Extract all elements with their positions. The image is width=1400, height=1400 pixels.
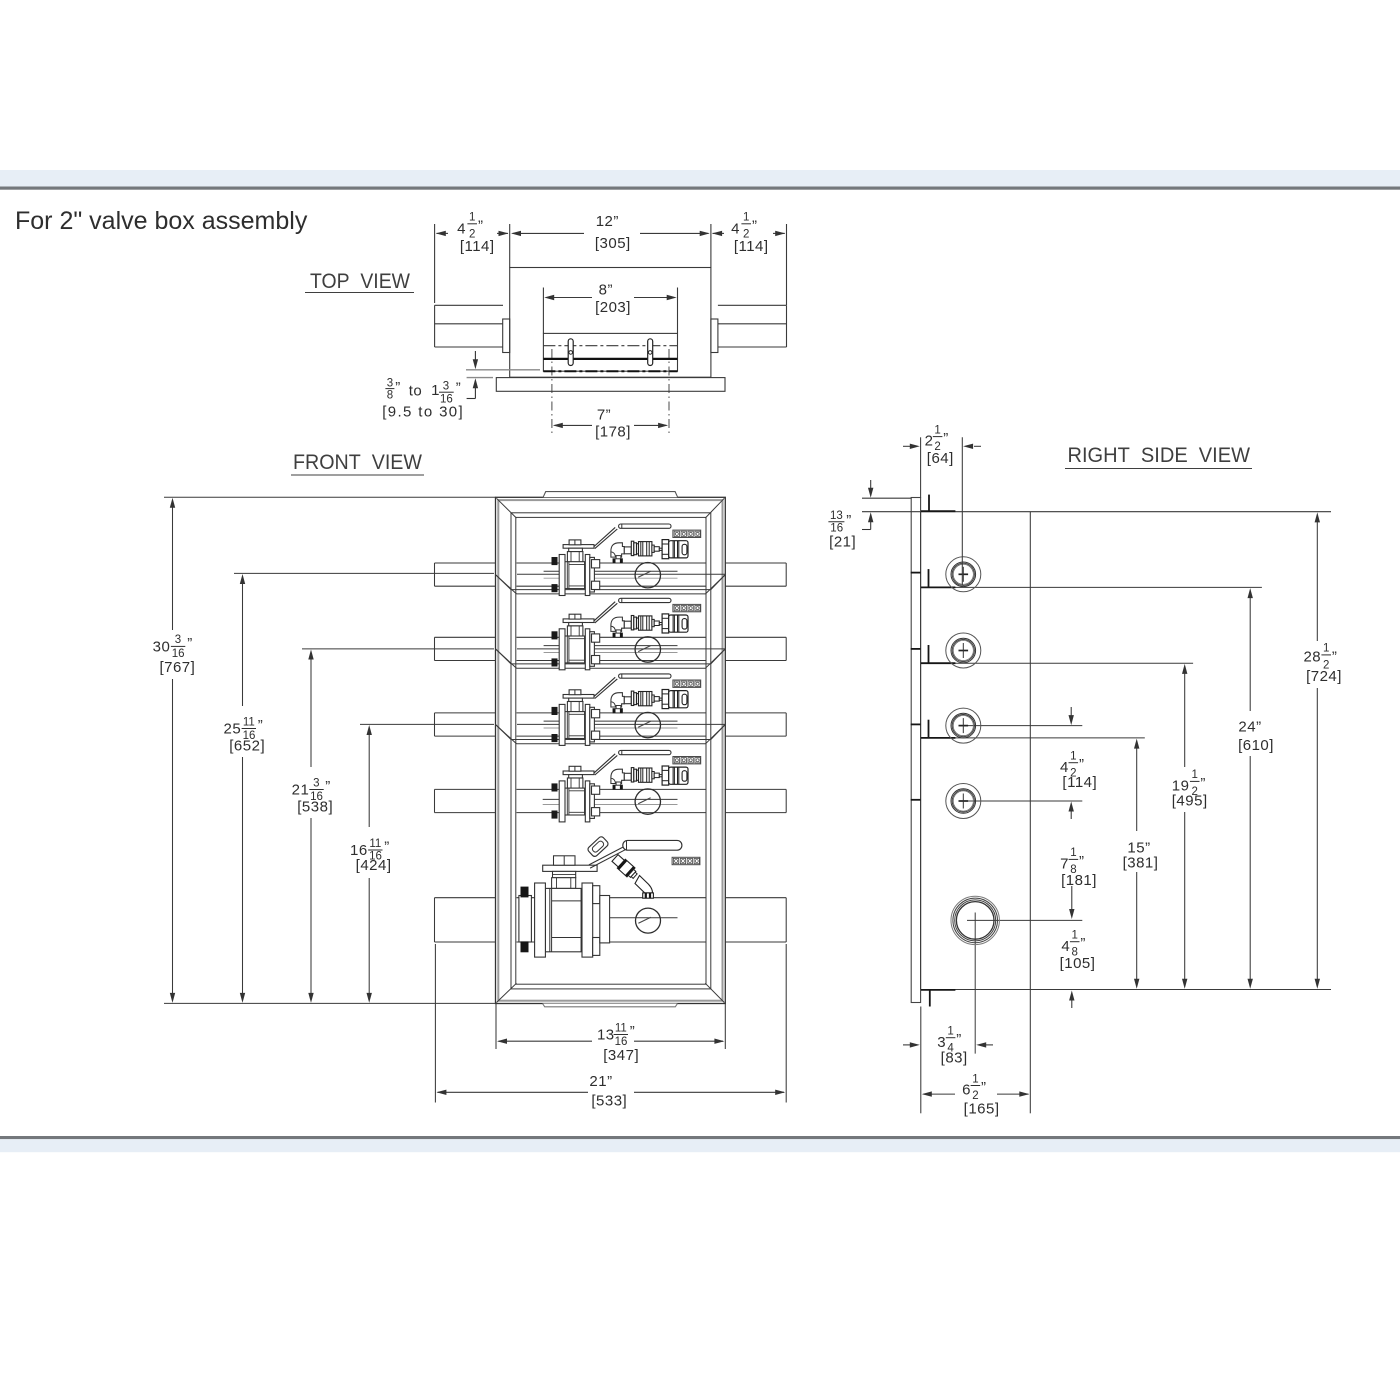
svg-text:”: ” [456, 380, 462, 397]
port 1 [946, 557, 981, 592]
svg-text:1: 1 [431, 382, 440, 399]
port 2 [946, 633, 981, 668]
ball valve assembly 3 [552, 674, 701, 746]
valve 5 manifold block [672, 857, 700, 864]
arrowheads 12 dim [511, 231, 521, 236]
port 3 [946, 708, 981, 743]
clip pipe 2 [928, 645, 930, 663]
dimension 4-1/8 arrow [1069, 991, 1074, 1001]
svg-text:2: 2 [925, 433, 934, 450]
bracket strut edge [543, 358, 677, 360]
svg-text:3: 3 [387, 378, 393, 390]
dimension line 30-3/16 [172, 506, 174, 630]
enclosure inner frame line 2 [516, 517, 706, 984]
bracket slot left [568, 339, 573, 366]
arrowheads 13-11/16 dim [497, 1039, 507, 1044]
svg-text:3: 3 [443, 381, 449, 393]
svg-text:”: ” [981, 1079, 987, 1096]
lid tab bottom [543, 1004, 678, 1007]
arrowheads 6-1/2 dim [922, 1091, 932, 1096]
extension line right of 4-1/2 dim [786, 224, 788, 305]
svg-text:1: 1 [1071, 930, 1077, 942]
extension lines 21 dim [434, 944, 436, 1103]
arrowheads 19-1/2 dim [1182, 664, 1187, 674]
dimension 13/16 arrows and leader [870, 480, 872, 489]
arrowheads 21 dim [436, 1090, 446, 1095]
svg-text:”: ” [1080, 935, 1086, 952]
mounting bracket top view [543, 333, 677, 371]
arrowheads 4-1/2 right dim [712, 231, 722, 236]
clip pipe 3 [928, 720, 930, 738]
extension line plate top [862, 497, 911, 499]
extension line box right edge [710, 224, 712, 268]
svg-text:11: 11 [243, 716, 255, 728]
svg-text:[652]: [652] [229, 738, 265, 755]
svg-text:”: ” [630, 1023, 636, 1040]
valve 5 body [545, 888, 581, 951]
lid tab top [543, 492, 678, 498]
svg-text:8: 8 [387, 390, 393, 402]
svg-text:[9.5 to 30]: [9.5 to 30] [382, 404, 463, 421]
header band [0, 170, 1400, 187]
svg-text:[347]: [347] [603, 1047, 639, 1064]
svg-text:3: 3 [937, 1034, 946, 1051]
enclosure right edge side view [1029, 512, 1031, 990]
svg-text:12”: 12” [596, 213, 619, 230]
svg-text:1: 1 [1323, 643, 1329, 655]
pipes [435, 563, 787, 942]
svg-text:”: ” [846, 512, 852, 529]
dimension line 28-1/2 [1316, 520, 1318, 641]
pipe 5 (2 inch) [435, 897, 496, 899]
valve 5 left cap and bolts [519, 896, 532, 943]
gap reference line upper [466, 369, 540, 371]
enclosure left edge side view [920, 512, 922, 990]
svg-text:1: 1 [743, 211, 749, 223]
ball valve assembly 1 [552, 524, 701, 596]
centerline port 4 [963, 800, 1082, 802]
extension line 3-1/4 left [920, 1007, 922, 1114]
extension line pipe 2 / 19-1/2 dim [921, 662, 1193, 664]
svg-text:[724]: [724] [1306, 668, 1342, 685]
bracket hidden edge dash-dot [543, 370, 677, 372]
plate tick pipe 2 [911, 648, 921, 650]
svg-text:FRONT VIEW: FRONT VIEW [293, 451, 422, 474]
plate tick pipe 1 [911, 572, 921, 574]
centerline pipe 3 [360, 723, 494, 725]
clip top [928, 495, 930, 512]
svg-text:30: 30 [153, 638, 171, 655]
centerline pipe 2 [302, 648, 494, 650]
svg-text:”: ” [956, 1031, 962, 1048]
svg-text:8”: 8” [599, 282, 613, 299]
enclosure bottom edge with extension [921, 989, 1331, 991]
svg-text:[424]: [424] [356, 857, 392, 874]
svg-text:3: 3 [175, 634, 181, 646]
enclosure inner frame line 1 [511, 513, 711, 989]
arrowheads 15 dim [1134, 739, 1139, 749]
svg-text:”: ” [187, 635, 193, 652]
gap reference line lower [467, 377, 493, 379]
arrowheads 25-11/16 dim [240, 574, 245, 584]
extension lines 8 dim [542, 288, 544, 334]
svg-text:24”: 24” [1238, 718, 1261, 735]
svg-text:4: 4 [1061, 938, 1070, 955]
centerline pipe 1 [234, 572, 494, 574]
svg-text:4: 4 [457, 220, 466, 237]
pipe 3 [435, 712, 496, 714]
dimension line 6-1/2 [924, 1093, 1029, 1095]
arrowheads 30-3/16 dim [170, 498, 175, 508]
valve 5 drain elbow [635, 876, 653, 893]
frame miter corners [497, 498, 725, 1002]
port 4 [946, 784, 981, 819]
ball valve assembly 4 [552, 750, 701, 822]
svg-text:RIGHT SIDE VIEW: RIGHT SIDE VIEW [1068, 444, 1251, 467]
extension line pipe 1 / 24 dim [921, 586, 1262, 588]
svg-text:1: 1 [1070, 847, 1076, 859]
svg-text:25: 25 [224, 721, 242, 738]
slot trough pipe 2 [496, 649, 517, 668]
svg-text:1: 1 [1191, 769, 1197, 781]
dimension line 21-3/16 [310, 659, 312, 767]
dimension 3-1/4 arrows [903, 1044, 911, 1046]
slot trough pipe 1 [496, 575, 517, 594]
svg-text:[381]: [381] [1123, 855, 1159, 872]
svg-text:”: ” [1332, 648, 1338, 665]
svg-text:”: ” [943, 430, 949, 447]
svg-text:[83]: [83] [941, 1050, 968, 1067]
arrowheads 8 dim [544, 295, 554, 300]
valve 5 bracket plate [543, 865, 597, 871]
arrowheads 24 dim [1248, 588, 1253, 598]
svg-text:3: 3 [313, 777, 319, 789]
arrowheads 4-1/2 left dim [436, 231, 446, 236]
extension line box top [164, 496, 496, 498]
svg-text:[165]: [165] [964, 1101, 1000, 1118]
ball valve assembly 5 (2 inch) [519, 836, 700, 958]
svg-text:TOP VIEW: TOP VIEW [310, 270, 410, 293]
arrowheads 7 dim [553, 423, 563, 428]
svg-text:For 2" valve box assembly: For 2" valve box assembly [15, 207, 308, 235]
svg-text:”: ” [478, 217, 484, 234]
svg-text:”: ” [395, 379, 401, 396]
plate tick pipe 3 [911, 723, 921, 725]
extension centerlines 7 dim [551, 349, 553, 434]
dimension line 7 [555, 424, 593, 426]
valve 5 handle paddle [587, 836, 609, 858]
svg-text:”: ” [752, 217, 758, 234]
clip pipe 1 [928, 569, 930, 587]
svg-text:[114]: [114] [1062, 774, 1097, 791]
centerline port 5 vertical [974, 913, 976, 1054]
centerline pipe 5 [610, 917, 678, 919]
svg-text:[767]: [767] [159, 659, 195, 676]
svg-text:”: ” [1200, 775, 1206, 792]
svg-text:7”: 7” [597, 407, 611, 424]
extension line left of 4-1/2 dim [434, 224, 436, 303]
arrowheads 28-1/2 dim [1315, 512, 1320, 522]
plate tick pipe 4 [911, 799, 921, 801]
extension line box left edge [509, 224, 511, 268]
dimension line 16-11/16 [368, 733, 370, 827]
dimension line 21 [438, 1091, 589, 1093]
svg-text:1: 1 [934, 424, 940, 436]
right pipe nipple [718, 304, 787, 306]
dimension 7-7/8 arrow [1069, 909, 1074, 919]
extension line box bottom [164, 1002, 497, 1004]
svg-text:[64]: [64] [927, 450, 954, 467]
dimension line 4-1/2 left [437, 232, 449, 234]
mounting plate edge view [911, 498, 920, 1003]
enclosure outer frame [496, 497, 726, 1003]
arrowheads 16-11/16 dim [367, 725, 372, 735]
svg-text:[21]: [21] [829, 534, 856, 551]
pipe 4 [435, 788, 496, 790]
dimension 4-1/2 arrows side view [1069, 715, 1074, 725]
svg-text:[538]: [538] [297, 799, 333, 816]
dimension line 19-1/2 [1184, 671, 1186, 767]
svg-text:[203]: [203] [595, 299, 631, 316]
arrowheads 21-3/16 dim [308, 650, 313, 660]
ball valve assembly 2 [552, 598, 701, 670]
svg-text:11: 11 [369, 838, 381, 850]
centerline port 3 [963, 725, 1082, 727]
svg-text:”: ” [1079, 853, 1085, 870]
enclosure top edge with extension [862, 511, 1331, 513]
svg-text:21”: 21” [589, 1073, 612, 1090]
svg-text:13: 13 [830, 510, 843, 522]
left pipe coupling [503, 319, 510, 353]
svg-text:”: ” [325, 778, 331, 795]
valve 5 drain elbow foot [643, 893, 654, 898]
svg-text:[181]: [181] [1061, 872, 1097, 889]
valve 5 pressure gauge [636, 908, 661, 933]
svg-text:[495]: [495] [1172, 792, 1208, 809]
dimension line 8 [546, 297, 592, 299]
enclosure frame shadow band [498, 500, 722, 1001]
extension line 6-1/2 right [1029, 990, 1031, 1114]
pipe 1 [435, 562, 496, 564]
pipe 2 [435, 636, 496, 638]
centerline pipe 4 [543, 798, 678, 800]
svg-text:4: 4 [731, 220, 740, 237]
valve 5 stem and nut [554, 856, 576, 865]
svg-text:7: 7 [1060, 856, 1069, 873]
dimension line 24 [1249, 596, 1251, 712]
svg-text:[114]: [114] [734, 238, 769, 255]
extension lines 13-11/16 dim [495, 1004, 497, 1050]
svg-text:1: 1 [469, 211, 475, 223]
extension line pipe 3 / 15 dim [921, 737, 1145, 739]
svg-text:21: 21 [292, 782, 310, 799]
left pipe nipple [435, 304, 503, 306]
svg-text:6: 6 [962, 1082, 971, 1099]
svg-text:[105]: [105] [1060, 955, 1096, 972]
clip bottom [929, 990, 931, 1007]
svg-text:[610]: [610] [1238, 737, 1274, 754]
port 5 (2 inch) [951, 896, 999, 944]
footer band [0, 1136, 1400, 1139]
centerline port 5 horizontal [967, 919, 1082, 921]
svg-text:[114]: [114] [460, 238, 495, 255]
valve box outline top view [510, 268, 711, 378]
dimension line 13-11/16 [499, 1040, 593, 1042]
svg-text:1: 1 [972, 1073, 978, 1085]
svg-text:[533]: [533] [591, 1093, 627, 1110]
valve 5 handle grip [623, 840, 682, 850]
valve 5 handle arm [589, 847, 625, 869]
valve 5 drain fitting chain 45deg [611, 854, 639, 881]
svg-text:13: 13 [597, 1027, 615, 1044]
svg-text:1: 1 [947, 1026, 953, 1038]
arrowheads 2-1/2 dim [910, 444, 920, 449]
slot trough pipe 3 [496, 725, 517, 744]
svg-text:28: 28 [1303, 649, 1321, 666]
svg-text:to: to [409, 383, 423, 400]
svg-text:[178]: [178] [595, 424, 631, 441]
dimension line 25-11/16 [242, 583, 244, 706]
svg-text:”: ” [1079, 756, 1085, 773]
base plate top view [496, 378, 725, 392]
svg-text:1: 1 [1070, 751, 1076, 763]
bracket centerline dash-dot [543, 345, 677, 347]
svg-text:”: ” [384, 839, 390, 856]
dimension line 15 [1136, 747, 1138, 832]
svg-text:11: 11 [615, 1022, 627, 1034]
dimension 2-1/2 extension lines [903, 437, 981, 585]
valve 5 flanges [535, 883, 546, 957]
gap dimension arrows [474, 351, 476, 360]
svg-text:”: ” [258, 717, 264, 734]
right pipe coupling [711, 319, 718, 353]
bracket slot right [648, 339, 653, 366]
dimension line 12 [513, 232, 585, 234]
dimension line 4-1/2 right [713, 232, 725, 234]
svg-text:[305]: [305] [595, 235, 631, 252]
